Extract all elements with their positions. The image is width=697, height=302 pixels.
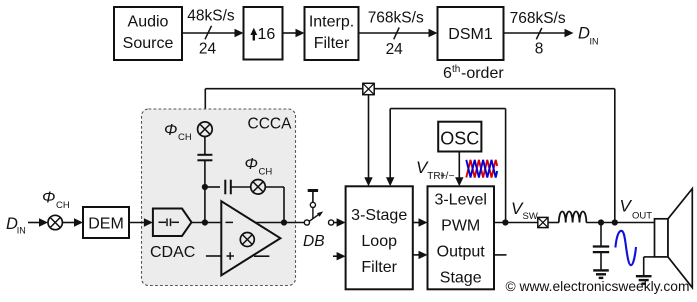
svg-text:3-Stage: 3-Stage [351, 207, 407, 224]
svg-text:Φ: Φ [164, 122, 177, 139]
wire inductor to output node [586, 222, 654, 224]
wire node A to opamp inverting input [204, 187, 206, 223]
svg-text:CH: CH [178, 132, 192, 143]
chopper X1 (top, phi_CH) [198, 122, 213, 137]
chopper X6 (box-X on Vsw line) [538, 217, 548, 227]
chopper X5 (inside op-amp) [240, 233, 254, 247]
block Audio Source [114, 7, 182, 60]
bus slash [536, 28, 542, 39]
svg-text:CDAC: CDAC [150, 244, 195, 261]
wire OSC to PWM [455, 152, 463, 187]
label V_SW [511, 199, 538, 222]
svg-text:© www.electronicsweekly.com: © www.electronicsweekly.com [506, 279, 690, 294]
speaker LS1 [655, 189, 693, 288]
svg-text:24: 24 [199, 41, 217, 58]
wire feedback drop to loop filter input 1 [364, 95, 372, 187]
svg-text:th: th [452, 64, 460, 75]
wire chopper X1 to capacitor C1 [204, 137, 206, 155]
CCCA dashed region [142, 109, 296, 286]
svg-text:Interp.: Interp. [309, 14, 354, 31]
svg-text:CH: CH [259, 167, 273, 178]
svg-text:-order: -order [461, 65, 504, 82]
svg-text:Φ: Φ [42, 190, 55, 207]
block OSC [438, 122, 481, 152]
label V_OUT [620, 197, 653, 222]
node D_IN (top) [578, 25, 599, 47]
wire chopper X2 to opamp output [265, 187, 284, 223]
svg-text:IN: IN [590, 37, 599, 47]
chopper X2 (phi_CH feedback) [251, 180, 266, 195]
chopper X4 (box-X on feedback line) [363, 83, 374, 94]
op-amp U1 [221, 201, 280, 275]
bus slash [205, 26, 212, 40]
capacitor C1 (vertical branch) [197, 155, 212, 161]
svg-text:Filter: Filter [361, 259, 397, 276]
svg-text:Source: Source [123, 35, 174, 52]
label phi_CH (feedback chopper) [245, 156, 273, 178]
CDAC block (pentagon) [153, 209, 192, 237]
switch S1 (DB controlled) [304, 191, 333, 226]
svg-text:3-Level: 3-Level [434, 192, 486, 209]
svg-text:Stage: Stage [440, 270, 482, 287]
triangle wave icon (red) [466, 160, 497, 178]
wire op-amp output to switch [256, 222, 305, 224]
wire op-amp lower output stub [254, 255, 269, 257]
bus slash [394, 28, 400, 40]
svg-text:CH: CH [56, 200, 70, 211]
block Interp. Filter [305, 7, 359, 60]
label V_TRI+/- [416, 158, 455, 182]
wire speaker to ground [644, 257, 655, 275]
ground (speaker) [636, 276, 652, 284]
sine wave Vout (blue) [615, 231, 636, 265]
node C junction (feedback tap) [281, 219, 287, 225]
block 3-Level PWM Output Stage [428, 186, 495, 289]
wire Vout feedback (top horizontal) [205, 88, 615, 90]
wire loop filter to PWM (lower) [413, 251, 428, 259]
svg-text:DSM1: DSM1 [448, 26, 493, 43]
wire CDAC to node B [192, 222, 222, 224]
wire feedback left drop into CCCA chopper [204, 89, 206, 123]
svg-text:6: 6 [443, 65, 452, 82]
wire lower input arrow to loop filter [333, 252, 346, 260]
wire chopper X3 to DEM [62, 218, 83, 226]
wire node A to capacitor C2 [205, 186, 220, 188]
svg-text:Loop: Loop [361, 233, 397, 250]
block upsampler x16 [244, 7, 283, 60]
svg-text:24: 24 [386, 41, 404, 58]
svg-text:IN: IN [17, 226, 26, 236]
node LC junction [598, 219, 604, 225]
wire DSM1 to D_IN [504, 29, 574, 37]
svg-text:V: V [620, 197, 633, 216]
svg-text:Φ: Φ [245, 156, 258, 173]
wire DEM to CDAC [129, 218, 153, 226]
svg-text:768kS/s: 768kS/s [510, 10, 566, 27]
svg-text:OSC: OSC [440, 129, 479, 149]
triangle wave icon (blue) [466, 160, 497, 178]
capacitor C2 (feedback branch) [225, 180, 231, 195]
wire Vsw feedback right drop to Vsw node [505, 109, 507, 223]
node Vout junction [612, 219, 618, 225]
block DEM [83, 207, 129, 238]
inductor L1 [559, 211, 587, 222]
wire PWM output (Vsw line) [494, 222, 538, 224]
chopper X3 (input, phi_CH) [48, 215, 62, 229]
svg-text:DEM: DEM [88, 216, 124, 233]
wire Interp Filter to DSM1 [359, 29, 438, 37]
node B junction [202, 219, 208, 225]
svg-text:Audio: Audio [128, 14, 169, 31]
block DSM1 [438, 7, 504, 60]
svg-text:768kS/s: 768kS/s [368, 9, 424, 26]
wire feedback right drop to Vout node [614, 89, 616, 223]
node A junction [202, 184, 208, 190]
wire x16 to Interp Filter [283, 29, 305, 37]
label phi_CH (top chopper) [164, 122, 192, 143]
svg-text:PWM: PWM [441, 218, 480, 235]
svg-text:48kS/s: 48kS/s [187, 8, 235, 25]
ground (LC filter) [593, 270, 609, 278]
wire loop filter to PWM (upper) [413, 218, 428, 226]
wire Vsw feedback (second horizontal) [390, 108, 505, 110]
svg-text:CCCA: CCCA [248, 116, 293, 133]
svg-text:Output: Output [437, 244, 486, 261]
wire capacitor C1 to node A [204, 161, 206, 187]
svg-text:DB: DB [303, 233, 325, 250]
wire Vsw feedback drop to loop filter input 2 [386, 109, 394, 187]
capacitor C3 (LC filter) [593, 223, 609, 270]
wire switch to loop filter [334, 218, 346, 226]
wire op-amp non-inverting input stub [206, 255, 221, 257]
svg-text:−: − [449, 171, 455, 182]
svg-text:OUT: OUT [632, 211, 652, 222]
wire Audio Source to x16 [182, 29, 244, 37]
label phi_CH (input chopper) [42, 190, 70, 212]
node D_IN (bottom-left) [6, 215, 26, 236]
wire chopper X6 to inductor [548, 222, 559, 224]
svg-text:SW: SW [523, 211, 538, 222]
label 6th-order [443, 64, 504, 82]
block 3-Stage Loop Filter [346, 186, 413, 289]
wire PWM lower output stub [494, 254, 507, 256]
svg-text:8: 8 [535, 41, 544, 58]
node Vsw junction [502, 219, 508, 225]
svg-text:16: 16 [258, 26, 276, 43]
svg-text:Filter: Filter [314, 35, 350, 52]
wire D_IN to chopper X3 [28, 218, 48, 226]
svg-text:D: D [578, 25, 590, 43]
wire capacitor C2 to chopper X2 [231, 186, 250, 188]
